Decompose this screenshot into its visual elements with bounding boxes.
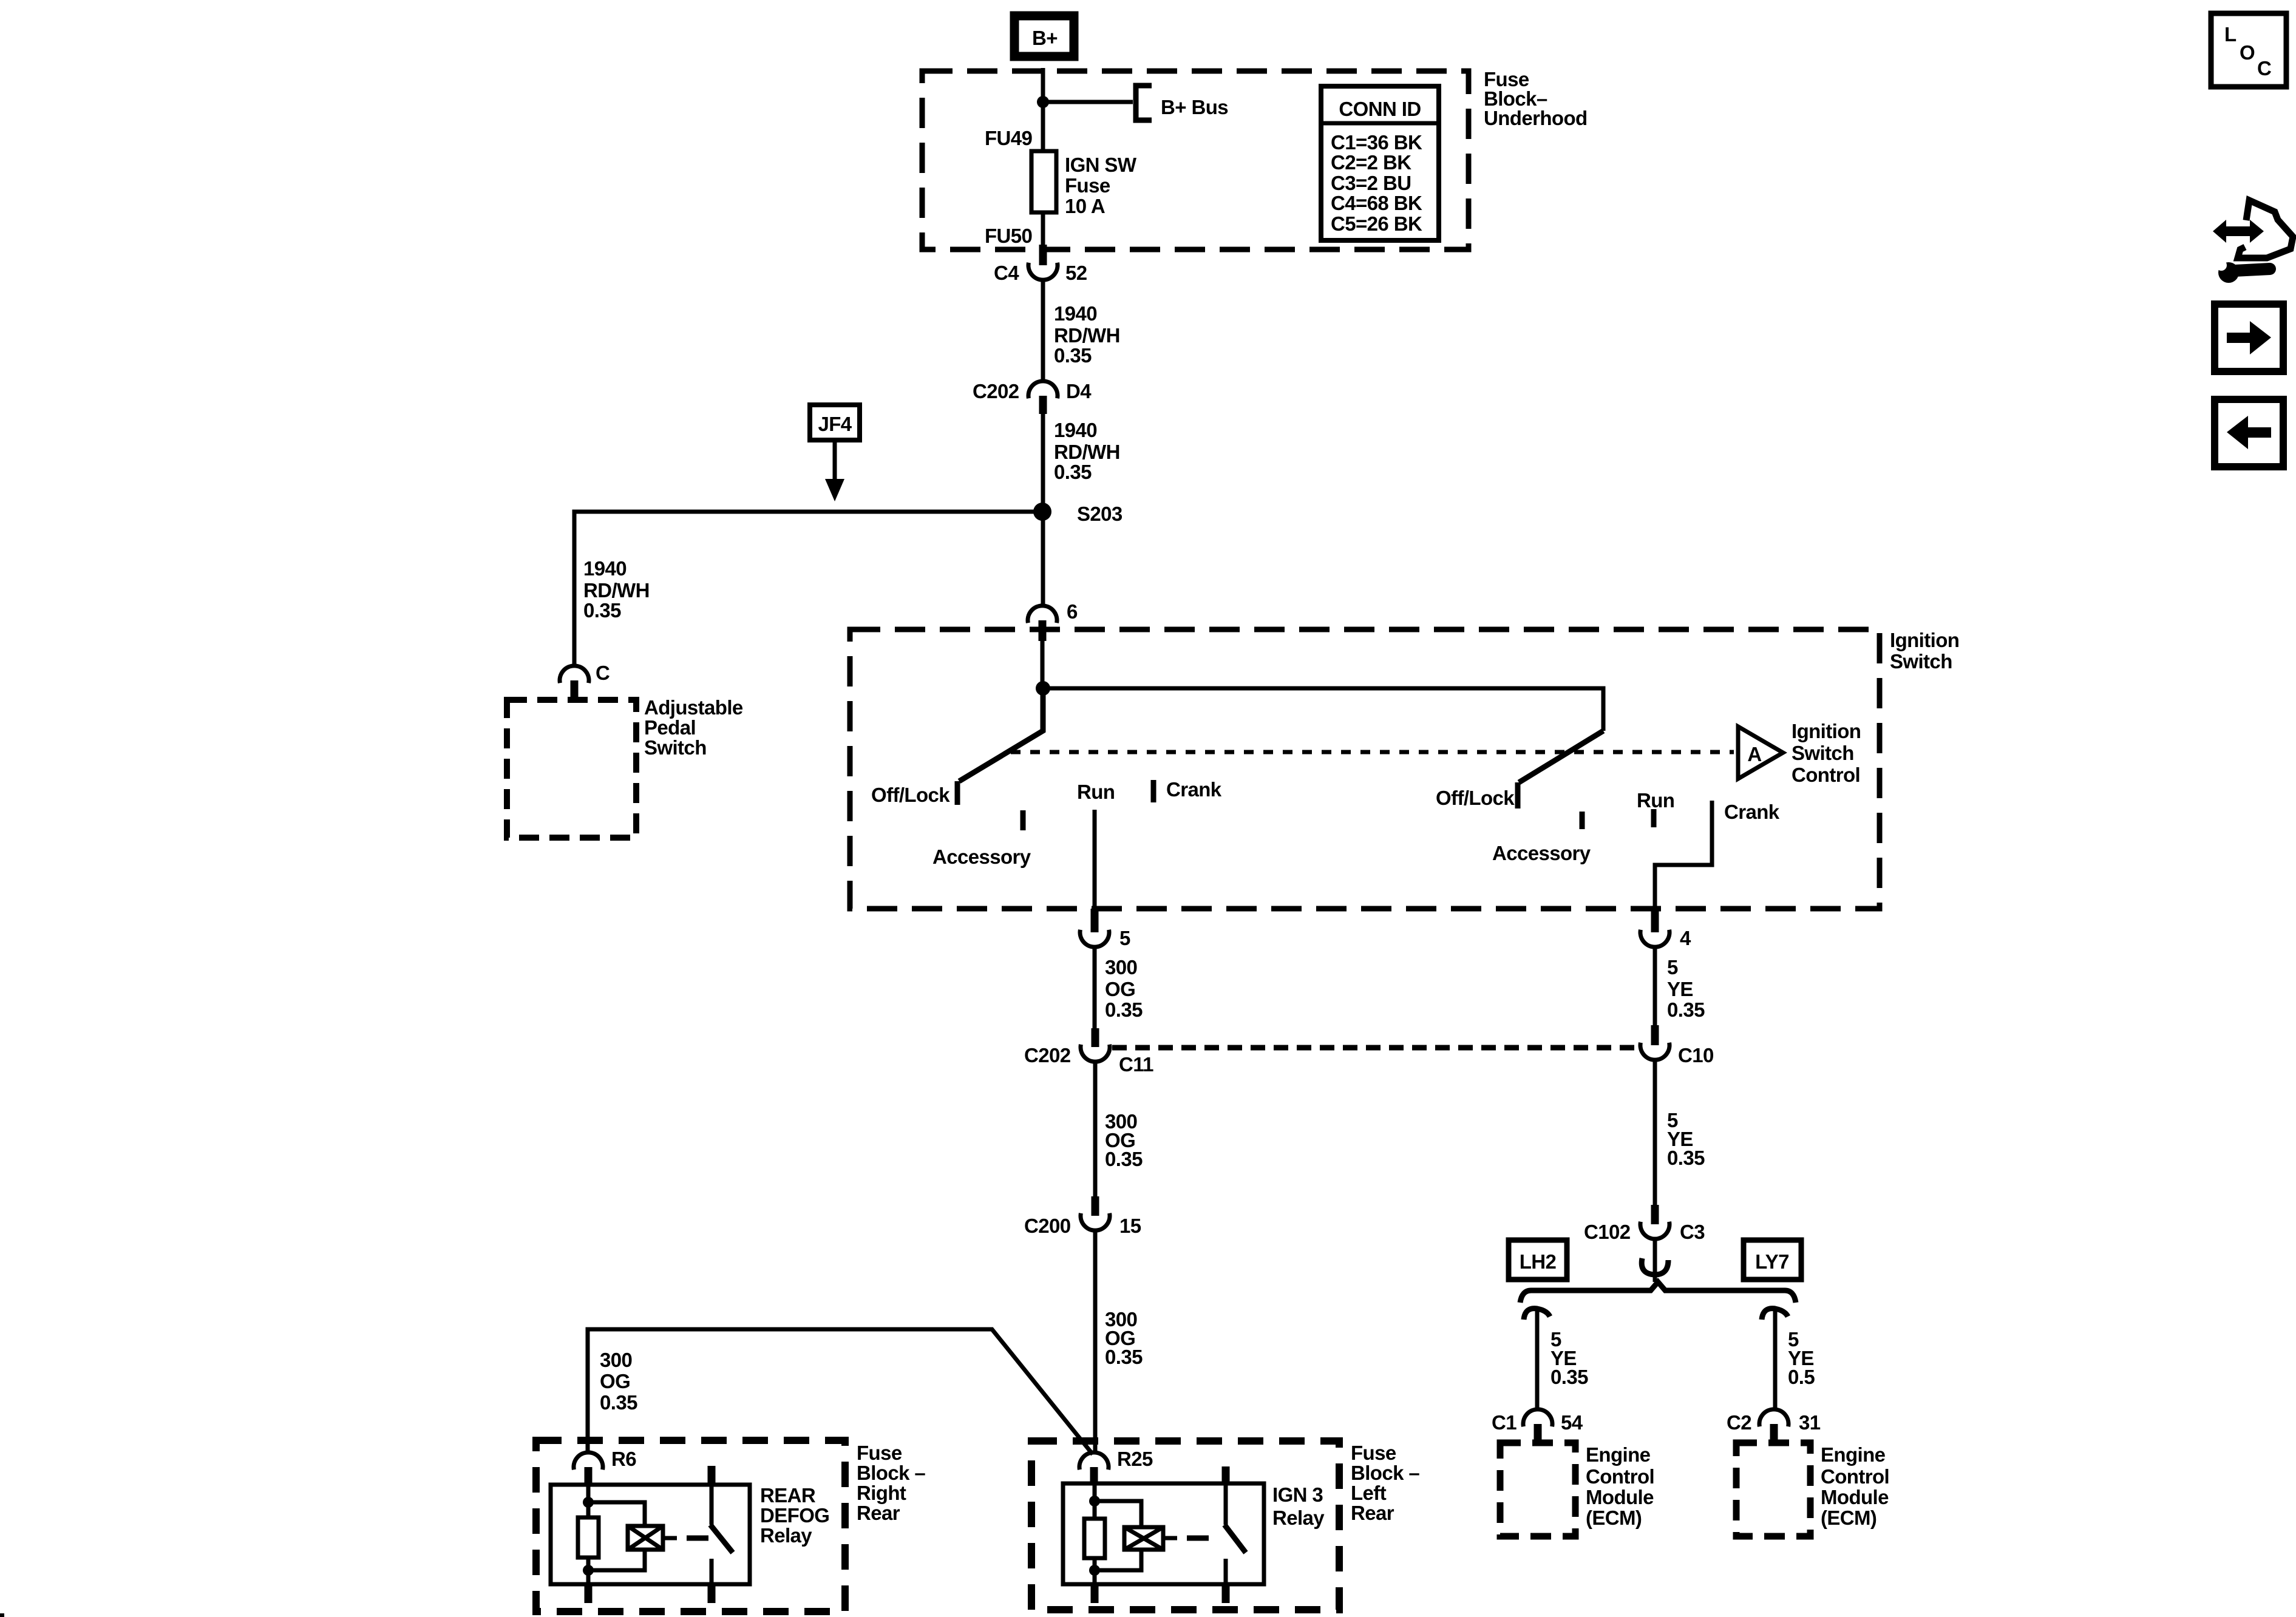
label 300 OG 0.35 (first) (1105, 956, 1143, 1021)
label 1940 RD/WH 0.35 (branch) (583, 557, 650, 622)
svg-text:Control: Control (1792, 764, 1860, 786)
svg-text:RD/WH: RD/WH (1054, 324, 1120, 347)
svg-text:6: 6 (1067, 600, 1078, 623)
svg-text:Relay: Relay (760, 1524, 812, 1547)
node R25 coil top (1089, 1496, 1100, 1507)
svg-text:Fuse: Fuse (1065, 174, 1110, 197)
svg-text:4: 4 (1680, 927, 1691, 949)
svg-text:C2=2 BK: C2=2 BK (1331, 151, 1411, 174)
relay R25 internal wire (1093, 1483, 1097, 1584)
svg-text:0.35: 0.35 (1105, 1148, 1143, 1170)
label 300 OG 0.35 (defog branch) (600, 1349, 637, 1414)
svg-text:1940: 1940 (1054, 302, 1097, 325)
label REAR DEFOG Relay (760, 1484, 829, 1547)
contact Run right (1651, 809, 1657, 827)
wire C4 to C202 (1041, 279, 1045, 382)
contact Crank left (1151, 780, 1156, 802)
wire C102 to options brace (1653, 1238, 1657, 1282)
svg-text:C4=68 BK: C4=68 BK (1331, 192, 1422, 214)
svg-text:0.5: 0.5 (1788, 1366, 1815, 1388)
svg-text:Engine: Engine (1586, 1443, 1651, 1466)
contact Run left + output wire (1093, 810, 1097, 909)
svg-text:0.35: 0.35 (583, 599, 621, 622)
connector C202 pin C11 (1024, 1028, 1153, 1076)
dotted link C11 to C10 (1112, 1045, 1638, 1051)
svg-text:Rear: Rear (1351, 1502, 1394, 1524)
coil R25 (1124, 1527, 1163, 1550)
svg-text:C202: C202 (1024, 1044, 1071, 1066)
svg-text:R6: R6 (611, 1448, 636, 1470)
node R25 coil bottom (1089, 1565, 1100, 1576)
svg-text:IGN SW: IGN SW (1065, 154, 1137, 176)
op-amp ignition switch control triangle A (1738, 727, 1783, 779)
svg-text:C11: C11 (1119, 1053, 1153, 1076)
svg-text:Right: Right (857, 1482, 906, 1504)
contact Off/Lock left (955, 781, 960, 805)
svg-text:B+: B+ (1032, 27, 1058, 49)
svg-text:Off/Lock: Off/Lock (871, 784, 950, 806)
connector R25 (1079, 1448, 1153, 1485)
pin R25 bottom left (1091, 1584, 1099, 1603)
svg-text:B+ Bus: B+ Bus (1161, 96, 1228, 118)
node B+ bus junction (1037, 96, 1049, 108)
node R6 coil top (583, 1497, 594, 1508)
svg-text:C5=26 BK: C5=26 BK (1331, 212, 1422, 235)
svg-text:Control: Control (1586, 1465, 1654, 1488)
svg-text:52: 52 (1065, 262, 1087, 284)
relay box REAR DEFOG (551, 1485, 750, 1584)
label 1940 RD/WH 0.35 (second) (1054, 419, 1120, 483)
svg-text:Accessory: Accessory (1492, 842, 1591, 864)
label 300 OG 0.35 (third) (1105, 1308, 1143, 1368)
JF4 reference box (810, 405, 860, 440)
switch blade right (Off/Lock) (1519, 731, 1603, 782)
svg-text:5: 5 (1667, 956, 1678, 978)
branch curl right (1762, 1309, 1788, 1320)
resistor R6 internal (578, 1517, 599, 1558)
svg-text:Adjustable: Adjustable (644, 696, 743, 719)
splice curl under C102 (1642, 1258, 1668, 1275)
switch R25 pin and blade (1224, 1466, 1246, 1584)
svg-text:0.35: 0.35 (1054, 344, 1092, 367)
wire brace to C1 (1535, 1311, 1540, 1410)
JF4 arrow (825, 440, 844, 501)
svg-text:Fuse: Fuse (1351, 1442, 1396, 1464)
switch blade left (Off/Lock) (959, 688, 1043, 781)
svg-text:REAR: REAR (760, 1484, 816, 1507)
svg-text:Control: Control (1821, 1465, 1889, 1488)
svg-text:R25: R25 (1117, 1448, 1153, 1470)
connector C102 pin C3 (1584, 1205, 1705, 1243)
coil R6 (628, 1526, 663, 1550)
icon forward arrow box (2215, 304, 2283, 371)
svg-text:Ignition: Ignition (1792, 720, 1861, 742)
adjustable pedal switch dashed box (507, 700, 636, 838)
connector C2 pin 31 (1727, 1409, 1821, 1444)
svg-text:RD/WH: RD/WH (583, 579, 650, 602)
svg-text:A: A (1747, 743, 1761, 765)
branch curl left (1524, 1309, 1550, 1320)
engine control module box (LY7) (1736, 1443, 1810, 1536)
svg-text:C3: C3 (1680, 1221, 1705, 1243)
svg-text:Module: Module (1821, 1486, 1889, 1508)
icon vehicle with arrows and wrench (2213, 200, 2293, 283)
switch R6 pin and blade (710, 1466, 733, 1584)
LOC reference box (2211, 13, 2286, 87)
svg-text:Switch: Switch (1890, 650, 1952, 673)
fuse block underhood dashed box (922, 71, 1469, 249)
svg-text:1940: 1940 (1054, 419, 1097, 441)
svg-text:C202: C202 (973, 380, 1019, 402)
svg-text:DEFOG: DEFOG (760, 1504, 829, 1527)
label Fuse Block - Left Rear (1351, 1442, 1419, 1524)
dashed actuator link R6 (687, 1536, 708, 1541)
svg-text:C1=36 BK: C1=36 BK (1331, 131, 1422, 154)
label IGN SW Fuse 10 A (1065, 154, 1137, 217)
label Fuse Block - Right Rear (857, 1442, 925, 1524)
fuse FU49/FU50 IGN SW 10A (1031, 151, 1056, 212)
svg-text:(ECM): (ECM) (1586, 1507, 1642, 1529)
svg-text:FU49: FU49 (985, 127, 1033, 149)
wire S203 branch left (574, 512, 1042, 666)
svg-text:RD/WH: RD/WH (1054, 441, 1120, 463)
svg-text:C2: C2 (1727, 1411, 1751, 1434)
svg-text:0.35: 0.35 (1550, 1366, 1588, 1388)
label 300 OG 0.35 (second) (1105, 1110, 1143, 1170)
wire R6 coil branch (588, 1502, 645, 1570)
svg-text:300: 300 (1105, 956, 1137, 978)
svg-text:Ignition: Ignition (1890, 629, 1959, 651)
fuse block right rear dashed box (536, 1440, 845, 1612)
connector 4 (crank output) (1640, 909, 1691, 949)
svg-text:Underhood: Underhood (1484, 107, 1588, 129)
svg-text:YE: YE (1667, 978, 1693, 1000)
svg-text:(ECM): (ECM) (1821, 1507, 1877, 1529)
label 5 YE 0.35 (first) (1667, 956, 1705, 1021)
svg-text:Crank: Crank (1724, 801, 1780, 823)
pin R6 bottom right (708, 1584, 716, 1603)
label 5 YE 0.35 (second) (1667, 1109, 1705, 1169)
connector 5 (run output) (1080, 909, 1130, 949)
label Fuse Block-Underhood (1484, 68, 1588, 129)
svg-text:O: O (2240, 41, 2255, 64)
connector C (pedal switch) (560, 662, 610, 699)
icon back arrow box (2215, 399, 2283, 467)
svg-text:Engine: Engine (1821, 1443, 1886, 1466)
svg-text:Accessory: Accessory (932, 846, 1031, 868)
svg-text:LH2: LH2 (1520, 1250, 1557, 1273)
label Adjustable Pedal Switch (644, 696, 743, 759)
dashed actuator link R25 (1187, 1536, 1209, 1541)
svg-text:Module: Module (1586, 1486, 1654, 1508)
svg-text:L: L (2224, 23, 2237, 46)
svg-text:OG: OG (1105, 978, 1135, 1000)
connector C4 pin 52 (994, 245, 1087, 284)
contact Off/Lock right (1515, 782, 1521, 808)
svg-text:Fuse: Fuse (857, 1442, 902, 1464)
svg-text:C: C (2257, 57, 2271, 80)
svg-text:JF4: JF4 (818, 413, 852, 435)
svg-text:1940: 1940 (583, 557, 627, 580)
svg-text:15: 15 (1119, 1215, 1141, 1237)
svg-text:Block –: Block – (857, 1462, 925, 1484)
svg-text:0.35: 0.35 (600, 1391, 637, 1414)
svg-text:0.35: 0.35 (1105, 998, 1143, 1021)
wire C10 to C102 (1653, 1060, 1657, 1205)
svg-text:Crank: Crank (1166, 778, 1222, 801)
svg-text:Run: Run (1077, 781, 1115, 803)
wire C200 to R25 (1093, 1230, 1098, 1453)
svg-text:D4: D4 (1066, 380, 1092, 402)
svg-text:C4: C4 (994, 262, 1019, 284)
label Ignition Switch Control (1792, 720, 1861, 786)
dotted switch gang line (1011, 750, 1734, 754)
svg-text:Off/Lock: Off/Lock (1436, 787, 1515, 809)
svg-text:Rear: Rear (857, 1502, 900, 1524)
svg-text:0.35: 0.35 (1054, 461, 1092, 483)
svg-text:C10: C10 (1678, 1044, 1714, 1066)
connector C202 pin D4 (973, 380, 1092, 414)
svg-text:54: 54 (1561, 1411, 1583, 1434)
node R6 coil bottom (583, 1565, 594, 1576)
ignition switch dashed box (850, 629, 1880, 909)
label Engine Control Module ECM (left) (1586, 1443, 1654, 1529)
svg-text:Switch: Switch (644, 736, 707, 759)
svg-text:Left: Left (1351, 1482, 1387, 1504)
connector C200 pin 15 (1024, 1196, 1141, 1237)
options split brace (1520, 1282, 1796, 1303)
svg-text:C3=2 BU: C3=2 BU (1331, 172, 1411, 194)
svg-text:FU50: FU50 (985, 225, 1032, 247)
wire brace to C2 (1773, 1311, 1778, 1410)
svg-text:IGN 3: IGN 3 (1272, 1483, 1323, 1506)
connector R6 (574, 1448, 636, 1485)
svg-text:10 A: 10 A (1065, 195, 1105, 217)
svg-text:300: 300 (600, 1349, 632, 1371)
svg-text:31: 31 (1799, 1411, 1821, 1434)
svg-text:C200: C200 (1024, 1215, 1071, 1237)
engine control module box (LH2) (1500, 1443, 1575, 1536)
label Ignition Switch (1890, 629, 1959, 673)
svg-text:C: C (596, 662, 610, 684)
label Engine Control Module ECM (right) (1821, 1443, 1889, 1529)
wire R25 coil branch (1095, 1501, 1141, 1570)
label 5 YE 0.5 (LY7 branch) (1788, 1328, 1815, 1388)
svg-text:Switch: Switch (1792, 742, 1854, 764)
contact Crank right + wire to output (1655, 801, 1712, 909)
contact Accessory left (1021, 810, 1026, 830)
B+ Bus terminal bracket (1136, 86, 1152, 120)
svg-text:LY7: LY7 (1755, 1250, 1789, 1273)
wire 4 to C10 (1653, 946, 1657, 1025)
svg-text:S203: S203 (1077, 503, 1123, 525)
node ignition feed junction (1036, 681, 1050, 696)
connector 6 (ignition switch) (1028, 600, 1078, 641)
label IGN 3 Relay (1272, 1483, 1325, 1529)
wire 5 to C202-C11 (1093, 946, 1097, 1028)
resistor R25 internal (1084, 1519, 1105, 1558)
relay box IGN 3 (1063, 1483, 1264, 1584)
engine option LH2 box (1509, 1240, 1567, 1280)
connector C10 (1640, 1025, 1714, 1066)
wire junction to right pole (1043, 688, 1603, 731)
B+ power symbol (1014, 16, 1074, 56)
svg-text:0.35: 0.35 (1105, 1346, 1143, 1368)
connector C1 pin 54 (1492, 1409, 1583, 1444)
svg-text:0.35: 0.35 (1667, 1147, 1705, 1169)
wire C11 to C200 (1093, 1062, 1098, 1196)
engine option LY7 box (1744, 1240, 1801, 1280)
wire fuse to C4 (1041, 212, 1045, 245)
svg-text:Block –: Block – (1351, 1462, 1419, 1484)
contact Accessory right (1580, 812, 1585, 829)
svg-text:5: 5 (1119, 927, 1130, 949)
svg-text:Pedal: Pedal (644, 716, 696, 739)
svg-text:C102: C102 (1584, 1221, 1631, 1243)
svg-text:C1: C1 (1492, 1411, 1517, 1434)
wire to B+ Bus (1043, 100, 1133, 104)
svg-text:OG: OG (600, 1370, 630, 1392)
relay R6 internal wire (586, 1485, 591, 1584)
pin R25 bottom right (1222, 1584, 1230, 1603)
fuse block left rear dashed box (1031, 1441, 1339, 1610)
wire into ignition switch (1041, 641, 1045, 690)
CONN ID table (1321, 86, 1439, 240)
svg-text:CONN ID: CONN ID (1339, 98, 1421, 120)
svg-text:Run: Run (1637, 789, 1674, 812)
label 5 YE 0.35 (LH2 branch) (1550, 1328, 1588, 1388)
wire R6 coil to actuator (663, 1536, 677, 1541)
pin R6 bottom left (585, 1584, 593, 1603)
wire branch to rear defog (300 OG) (588, 1329, 1093, 1454)
wire R25 coil to actuator (1163, 1536, 1177, 1541)
label 1940 RD/WH 0.35 (upper) (1054, 302, 1120, 367)
svg-text:Relay: Relay (1272, 1507, 1325, 1529)
wire B+ to fuse FU49 (1041, 68, 1045, 157)
svg-text:0.35: 0.35 (1667, 998, 1705, 1021)
wire C202 to S203 (1041, 414, 1045, 606)
splice S203 (1033, 503, 1051, 521)
